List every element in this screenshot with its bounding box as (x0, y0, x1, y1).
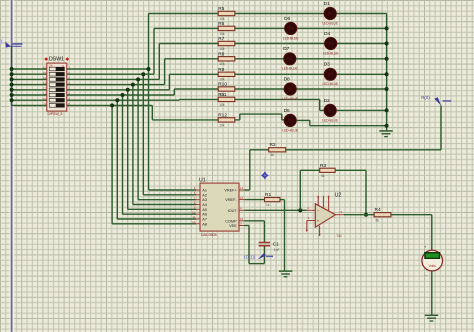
LED D2 (LED-BLUE) (322, 98, 338, 123)
wire: channel 5 vertical to DAC (127, 90, 129, 210)
wire: VREF- to R1 (244, 199, 264, 201)
wire: channel 1 vertical to DAC (148, 69, 150, 190)
wire: DIP pin row 1 (left) (12, 68, 47, 70)
wire: channel 4 from DIP to corner (67, 84, 165, 86)
wire: channel 7 resistor feed (179, 98, 218, 100)
resistor R4 (374, 207, 391, 222)
wire: DIP pin row 3 (left) (12, 78, 47, 80)
node: summing junction (298, 208, 302, 212)
resistor R6 (218, 21, 235, 36)
svg-text:10k: 10k (219, 62, 225, 66)
LED D5 (LED-BLUE) (282, 108, 298, 133)
svg-text:10k: 10k (219, 123, 225, 127)
svg-text:DAC0808: DAC0808 (201, 233, 217, 237)
svg-text:C1: C1 (273, 241, 279, 247)
wire: R9 to D3 (235, 73, 324, 75)
node: left bus junction 4 (10, 83, 14, 87)
input terminal marker (5, 42, 11, 48)
wire: LED cathode bus (386, 14, 388, 131)
wire: DIP pin row 2 (left) (12, 73, 47, 75)
node: junction channel 3 (136, 77, 140, 81)
LED D1 (LED-BLUE) (322, 1, 338, 26)
ground (LED bus) (379, 131, 392, 137)
IC U1 DAC0808 (192, 177, 244, 236)
wire: R10 to D8 (235, 88, 284, 90)
LED D6 (LED-BLUE) (283, 16, 299, 41)
wire: channel 8 into DAC pin A8 (112, 223, 196, 225)
svg-text:741: 741 (336, 234, 342, 238)
wire: D8 cathode to bus (296, 88, 386, 90)
node: bus junction (385, 57, 389, 61)
node: bus junction (385, 26, 389, 30)
svg-text:U1: U1 (199, 177, 206, 183)
wire: left vertical bus to DIP switch (11, 46, 13, 105)
origin marker (blue diamond) (264, 157, 266, 171)
svg-text:A8: A8 (202, 222, 207, 226)
ground (R1) (279, 271, 292, 277)
wire: R7 to D4 (235, 43, 325, 45)
node: junction channel 2 (141, 72, 145, 76)
wire: channel 4 vertical to DAC (132, 85, 134, 205)
wire: D1 cathode to bus (336, 13, 386, 15)
svg-text:5k: 5k (271, 153, 275, 157)
svg-text:(C(1)): (C(1)) (244, 254, 256, 259)
LED D7 (LED-BLUE) (282, 46, 298, 70)
wire: channel 6 from DIP to corner (67, 94, 175, 96)
resistor R7 (218, 36, 235, 51)
ground (voltmeter) (425, 315, 438, 321)
svg-text:VREF-: VREF- (225, 198, 237, 202)
resistor R5 (218, 6, 235, 21)
svg-text:U2: U2 (335, 193, 342, 199)
wire: channel 3 from DIP to corner (67, 78, 160, 80)
wire: VREF+ up to R2 (244, 189, 250, 191)
node: op-amp output junction (364, 213, 368, 217)
wire: D7 cathode to bus (296, 58, 387, 60)
wire: channel 5 resistor feed (169, 73, 218, 75)
svg-text:14: 14 (240, 186, 244, 190)
svg-text:12: 12 (43, 86, 47, 90)
wire: channel 4 into DAC pin A4 (133, 204, 196, 206)
wire: channel 7 into DAC pin A7 (117, 218, 196, 220)
wire: channel 4 resistor feed (165, 58, 219, 60)
wire: R2 to terminal R(0) (286, 149, 441, 151)
svg-text:1k: 1k (266, 203, 270, 207)
svg-text:1nF: 1nF (274, 248, 280, 252)
resistor R1 (265, 192, 280, 207)
svg-text:LED-BLUE: LED-BLUE (282, 67, 298, 71)
voltmeter (422, 245, 443, 278)
wire: channel 7 riser to resistor row (178, 98, 180, 101)
wire: channel 6 resistor feed (174, 88, 218, 90)
svg-text:10k: 10k (219, 17, 225, 21)
svg-text:LED-BLUE: LED-BLUE (282, 128, 298, 132)
svg-text:LED-BLUE: LED-BLUE (283, 36, 299, 40)
wire: channel 6 into DAC pin A6 (123, 213, 197, 215)
wire: DIP pin row 8 (left) (12, 104, 47, 106)
wire: D3 cathode to bus (336, 73, 386, 75)
node: left bus junction 2 (10, 72, 14, 76)
svg-text:16: 16 (240, 217, 244, 221)
wire: IOUT to op-amp inverting input (244, 209, 306, 211)
wire: D2 cathode to bus (336, 109, 386, 111)
svg-text:D3: D3 (324, 62, 330, 68)
wire: R11 to D2 (step down) (235, 98, 320, 100)
partial component at left edge (0, 40, 2, 45)
svg-text:LED-BLUE: LED-BLUE (323, 82, 339, 86)
node: junction channel 5 (126, 88, 130, 92)
svg-text:5k: 5k (376, 219, 380, 223)
svg-text:11: 11 (43, 92, 46, 96)
wire: channel 8 drop to R12 row (151, 105, 153, 120)
svg-text:DIPSW_8: DIPSW_8 (48, 112, 63, 116)
node: junction channel 4 (131, 83, 135, 87)
resistor R12 (218, 113, 235, 128)
wire: channel 3 resistor feed (159, 43, 218, 45)
wire: R1 to ground (280, 199, 285, 201)
svg-text:R2: R2 (270, 142, 276, 148)
svg-text:DSW1: DSW1 (49, 57, 64, 63)
svg-text:14: 14 (43, 76, 47, 80)
wire: op-amp output to R4 (344, 214, 374, 216)
svg-text:15: 15 (240, 196, 244, 200)
svg-text:10k: 10k (219, 103, 225, 107)
node: bus junction (385, 42, 389, 46)
svg-text:10k: 10k (219, 78, 225, 82)
wire: voltmeter to ground (431, 271, 433, 315)
resistor R8 (218, 52, 235, 67)
svg-text:10: 10 (43, 97, 47, 101)
svg-text:LED-BLUE: LED-BLUE (322, 21, 338, 25)
svg-text:A4: A4 (202, 203, 207, 207)
svg-text:−: − (317, 208, 320, 213)
wire: channel 2 riser to resistor row (153, 28, 155, 74)
resistor R3 (320, 163, 335, 178)
svg-text:D8: D8 (284, 76, 290, 82)
svg-text:D1: D1 (324, 1, 330, 7)
wire: channel 5 into DAC pin A5 (128, 208, 196, 210)
LED D3 (LED-BLUE) (323, 62, 339, 87)
LED D4 (LED-BLUE) (323, 31, 339, 56)
wire: C1 to VEE (263, 247, 265, 264)
svg-text:LED-BLUE: LED-BLUE (323, 51, 339, 55)
LED D8 (LED-BLUE) (282, 76, 298, 101)
svg-text:A5: A5 (202, 208, 207, 212)
wire: DIP pin row 5 (left) (12, 89, 47, 91)
svg-text:A6: A6 (202, 213, 207, 217)
node: left bus junction 1 (10, 67, 14, 71)
node: left bus junction 3 (10, 77, 14, 81)
svg-text:13: 13 (43, 81, 47, 85)
node: bus junction (385, 108, 389, 112)
svg-text:12: 12 (192, 220, 196, 224)
svg-text:D6: D6 (284, 16, 290, 22)
node: junction channel 6 (121, 93, 125, 97)
svg-text:A2: A2 (202, 193, 207, 197)
wire: channel 4 riser to resistor row (164, 59, 166, 85)
wire: channel 8 vertical to DAC (111, 105, 113, 223)
node: left bus junction 5 (10, 88, 14, 92)
wire: channel 6 vertical to DAC (122, 95, 124, 214)
svg-text:LED-BLUE: LED-BLUE (282, 97, 298, 101)
wire: channel 1 into DAC pin A1 (149, 189, 197, 191)
node: bus junction (385, 72, 389, 76)
wire: DIP pin row 4 (left) (12, 84, 47, 86)
terminal R(0) (434, 97, 441, 106)
wire: channel 3 riser to resistor row (158, 44, 160, 80)
wire: feedback riser (299, 170, 301, 210)
wire: channel 8 from DIP to corner (67, 104, 153, 106)
wire: D4 cathode to bus (337, 43, 387, 45)
svg-text:5k: 5k (321, 174, 325, 178)
sheet border line (left, purple with white margin) (9, 0, 14, 332)
resistor R9 (218, 67, 235, 82)
wire: channel 2 from DIP to corner (67, 73, 154, 75)
wire: channel 7 from DIP to corner (67, 99, 179, 101)
wire: channel 3 vertical to DAC (137, 79, 139, 199)
wire: channel 2 resistor feed (154, 27, 218, 29)
svg-text:10k: 10k (219, 47, 225, 51)
wire: DIP pin row 6 (left) (12, 94, 47, 96)
svg-text:IOUT: IOUT (228, 209, 238, 213)
svg-text:COMP: COMP (225, 219, 237, 223)
node: bus junction (385, 87, 389, 91)
wire: channel 3 into DAC pin A3 (138, 199, 196, 201)
wire: DIP pin row 7 (left) (12, 99, 47, 101)
svg-text:VREF+: VREF+ (224, 189, 237, 193)
wire: D5 cathode via bottom row to bus (296, 119, 310, 121)
svg-text:A1: A1 (202, 189, 207, 193)
wire: channel 6 riser to resistor row (173, 89, 175, 95)
resistor R2 (269, 142, 286, 157)
wire: channel 1 from DIP to corner (67, 68, 149, 70)
op-amp U2 (741) (306, 193, 344, 239)
wire: COMP to C1 (244, 220, 264, 222)
wire: R4 to voltmeter (391, 214, 432, 216)
svg-text:10: 10 (192, 210, 196, 214)
wire: channel 5 riser to resistor row (168, 74, 170, 90)
svg-text:D7: D7 (283, 46, 289, 52)
wire: R5 to D1 (235, 13, 324, 15)
svg-text:15: 15 (43, 71, 47, 75)
wire: channel 1 resistor feed (149, 13, 219, 15)
capacitor C1 (259, 241, 280, 252)
svg-text:D2: D2 (324, 98, 330, 104)
svg-text:A7: A7 (202, 218, 207, 222)
wire: channel 5 from DIP to corner (67, 89, 170, 91)
wire: R12 to D5 (up and over) (235, 119, 240, 121)
node: junction channel 7 (115, 98, 119, 102)
wire: channel 7 vertical to DAC (116, 100, 118, 219)
wire: R3 to output node (335, 169, 366, 171)
resistor R11 (218, 92, 235, 107)
svg-text:D5: D5 (284, 108, 290, 114)
svg-text:D4: D4 (324, 31, 330, 37)
wire: D6 cathode to bus (297, 27, 387, 29)
svg-text:A3: A3 (202, 198, 207, 202)
svg-text:R(0): R(0) (421, 95, 430, 100)
svg-text:LED-BLUE: LED-BLUE (322, 118, 338, 122)
node: junction channel 8 (110, 103, 114, 107)
svg-text:10k: 10k (219, 32, 225, 36)
node: junction channel 1 (147, 67, 151, 71)
resistor R10 (218, 82, 235, 97)
wire: channel 2 vertical to DAC (142, 74, 144, 195)
node: bus junction (385, 124, 389, 128)
wire: channel 2 into DAC pin A2 (143, 194, 196, 196)
svg-text:VEE: VEE (229, 224, 237, 228)
node: left bus junction 6 (10, 93, 14, 97)
svg-text:Volts: Volts (429, 264, 437, 268)
wire: channel 1 riser to resistor row (148, 14, 150, 70)
svg-text:16: 16 (43, 66, 47, 70)
svg-text:+: + (317, 219, 320, 224)
wire: R6 to D6 (235, 27, 285, 29)
wire: R8 to D7 (235, 58, 284, 60)
node: left bus junction 7 (10, 98, 14, 102)
svg-text:11: 11 (192, 215, 195, 219)
DIP switch DSW1 (43, 57, 70, 117)
